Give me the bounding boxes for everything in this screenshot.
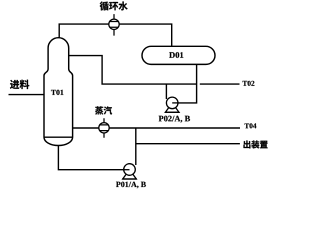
label out-of-unit 出装置 [244, 141, 268, 149]
cooler symbol on overhead line (circulating water service) [109, 14, 119, 35]
process flow diagram: distillation column system [0, 0, 269, 194]
label P01/A,B [116, 182, 146, 189]
wire pump P02 discharge riser up to header [165, 84, 167, 99]
wire feed line into column T01 [9, 94, 45, 96]
label P02/A,B [159, 116, 190, 123]
steam heater symbol on bottoms line [99, 118, 109, 138]
pump P02 (circle on triangle base) [165, 97, 180, 112]
label D01 [169, 52, 183, 58]
label T04 [245, 123, 257, 128]
wire drum D01 bottom outlet down and left to pump P02 suction [172, 64, 196, 103]
column T01 vessel (dome top, neck, shoulders, body, dished bottom) [44, 38, 73, 146]
label T01 [51, 90, 63, 95]
wire column bottoms down and right to pump P01 suction [58, 145, 129, 170]
wire reflux/distillate header: column neck right to corner, down, right to T02 (gap at crossing) [69, 56, 240, 85]
wire overhead vapor: column top up and right to cooler, then to drum D01 inlet [59, 24, 172, 46]
wire pump P01 discharge riser up to T04 line [135, 128, 137, 165]
drum D01 horizontal capsule vessel [142, 46, 215, 64]
label T02 [243, 81, 255, 86]
pump P01 (circle on triangle base) [122, 164, 137, 179]
label circulating-water 循环水 [100, 2, 128, 11]
wire out-of-unit branch from riser [136, 143, 240, 145]
label feed 进料 [10, 80, 29, 89]
label steam 蒸汽 [95, 106, 112, 114]
wire steam line from column side through valve, continuing right to T04 [73, 127, 240, 129]
